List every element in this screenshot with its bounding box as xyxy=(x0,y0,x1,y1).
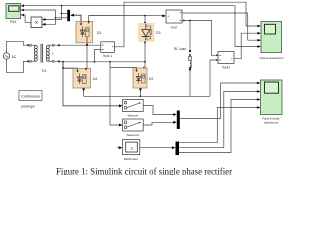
wire phase2 to D4 anode xyxy=(63,62,78,70)
powergui xyxy=(19,91,42,109)
mux1 bar xyxy=(177,111,180,130)
wire D2 cathode to rail xyxy=(139,88,142,97)
scope Pd1 xyxy=(6,4,24,24)
svg-text:Continuous: Continuous xyxy=(21,95,40,99)
svg-text:+: + xyxy=(167,15,169,19)
svg-text:Tr1: Tr1 xyxy=(42,69,47,73)
wire Vout minus riser xyxy=(210,59,218,96)
product block xyxy=(31,17,46,28)
diode D3 xyxy=(138,23,161,42)
wire demux1 out1 xyxy=(61,12,67,14)
wire Vout1 minus riser xyxy=(95,50,101,62)
wire V-node: Pd1 in1 across top to scope1 in4 xyxy=(21,5,258,47)
diode D4 xyxy=(73,68,97,88)
wire phase1: secondary top to bridge node and Vout1 + xyxy=(54,44,101,46)
wire Iout i-measure to scope1 in3 xyxy=(182,13,258,40)
current measurement Iout xyxy=(166,10,182,29)
wire DC minus rail xyxy=(84,95,210,97)
svg-text:Vout1: Vout1 xyxy=(222,66,230,70)
wire phase1 branch to D2 anode and Selector1 xyxy=(110,62,137,127)
wire D3 cathode down to D2 xyxy=(143,41,146,68)
demux2 bar xyxy=(176,142,180,156)
wire Selector1 output to mux1 in2 xyxy=(143,121,177,125)
svg-text:Output waveforms: Output waveforms xyxy=(259,56,284,60)
svg-text:Selector1: Selector1 xyxy=(127,133,140,137)
svg-text:Iout: Iout xyxy=(171,25,176,29)
svg-text:Vout 1: Vout 1 xyxy=(103,54,112,58)
RL load xyxy=(174,21,191,97)
Selector1 xyxy=(123,119,144,137)
wire Selector output to mux1 in1 xyxy=(143,106,177,116)
svg-text:AC: AC xyxy=(11,55,16,59)
wire rail tap to Selector input xyxy=(62,67,123,107)
diode D1 xyxy=(76,21,101,43)
svg-text:D2: D2 xyxy=(149,77,153,81)
svg-text:Figure 1: Simulink circuit of: Figure 1: Simulink circuit of single pha… xyxy=(56,166,233,175)
wire AC top to transformer primary top xyxy=(7,41,28,53)
wire mux1 output to scope2 in1 xyxy=(180,83,257,119)
wire AC bottom to transformer primary bottom xyxy=(7,60,28,72)
svg-text:Multimeter: Multimeter xyxy=(124,157,138,161)
wire demux1 out2 xyxy=(55,17,67,19)
svg-text:D3: D3 xyxy=(156,31,160,35)
wire demux2 out3 to scope2 in3 xyxy=(179,100,257,153)
wire D1 anode down to D4 xyxy=(86,43,88,69)
wire demux2 out1 to scope2 in4 xyxy=(179,108,257,143)
wire product output to Pd1 in3 xyxy=(21,15,31,22)
wire Multimeter output to demux2 xyxy=(140,146,176,149)
svg-text:Pd1: Pd1 xyxy=(10,20,16,24)
wire demux2 out2 to scope2 in2 xyxy=(179,92,257,148)
AC source xyxy=(3,52,16,61)
wire demux1 input from D1 m port xyxy=(70,14,81,22)
Multimeter xyxy=(117,140,140,161)
wire Vout output to scope1 in2 xyxy=(234,33,258,59)
scope1 Output waveforms xyxy=(257,22,284,61)
svg-text:3: 3 xyxy=(130,147,132,151)
wire product in1 from V-node xyxy=(46,6,63,20)
wire Iout out to RL load and Vout + xyxy=(182,20,218,57)
svg-text:Selector: Selector xyxy=(127,114,138,118)
svg-text:×: × xyxy=(35,21,39,27)
scope2 Fault and diode waveforms xyxy=(257,80,282,125)
svg-text:RL Load: RL Load xyxy=(174,47,186,51)
svg-text:D4: D4 xyxy=(93,77,97,81)
wire Pd1 in2 from demux out2 xyxy=(21,10,56,24)
demux1 bar xyxy=(67,10,70,21)
measurement block Vout xyxy=(218,52,234,70)
wire phase2: secondary bottom rail xyxy=(54,61,145,63)
svg-text:D1: D1 xyxy=(97,31,101,35)
measurement block Vout1 xyxy=(101,42,115,58)
wire D1 cathode rail to Iout xyxy=(89,15,166,24)
svg-text:waveforms: waveforms xyxy=(264,121,279,125)
wire D4 cathode to rail xyxy=(82,88,85,96)
Selector xyxy=(123,100,144,118)
svg-text:powergui: powergui xyxy=(22,105,35,109)
diode D2 xyxy=(133,68,153,88)
wire Vout1 output up and across to scope1 in1 xyxy=(114,2,257,47)
transformer Tr1 xyxy=(27,44,60,73)
